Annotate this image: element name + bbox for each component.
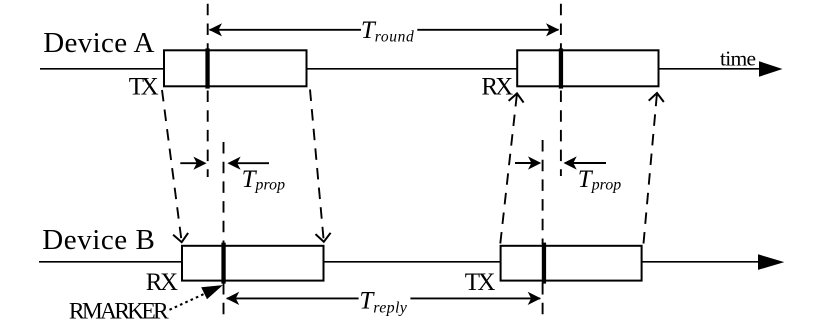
signal path S1 (A TX left edge to B RX left edge): [162, 90, 188, 242]
svg-text:TX: TX: [465, 269, 496, 296]
dashed vertical line V4 (A RX marker, lower): [560, 91, 562, 177]
marker bar in frame A1: [205, 48, 209, 88]
timeline B wire: [39, 261, 760, 263]
svg-text:RMARKER: RMARKER: [69, 299, 169, 325]
dashed vertical line V1 (A TX marker, lower): [207, 91, 209, 178]
frame A1 (TX frame of Device A): [164, 50, 307, 86]
frame A2 (RX frame of Device A): [517, 50, 658, 86]
dashed vertical line V3 (B TX marker, upper): [542, 140, 544, 244]
svg-text:RX: RX: [146, 269, 178, 296]
marker bar in frame A2: [559, 48, 563, 88]
T_prop arrows (left pair): [180, 157, 269, 170]
signal path S3 (B TX left edge to A RX left edge): [500, 93, 523, 243]
svg-text:TX: TX: [129, 74, 159, 101]
timeline A arrowhead: [759, 61, 783, 77]
dashed vertical line V4 (A RX marker, upper): [560, 4, 562, 50]
signal path S2 (A TX right edge to B RX right edge): [310, 90, 331, 242]
svg-text:time: time: [720, 47, 756, 71]
timeline A wire: [40, 68, 760, 70]
svg-text:Device B: Device B: [42, 224, 155, 256]
svg-text:RX: RX: [481, 74, 513, 101]
timeline B arrowhead: [758, 254, 784, 270]
signal path S4 (B TX right edge to A RX right edge): [644, 93, 664, 244]
dashed vertical line V3 (B TX marker, lower): [542, 283, 544, 316]
T_reply dimension arrow: [226, 292, 541, 305]
dashed vertical line V2 (B RX marker, upper): [223, 142, 225, 244]
T_prop arrows (right pair): [515, 156, 606, 169]
dashed vertical line V1 (A TX marker, upper): [207, 4, 209, 50]
marker bar in frame B2: [542, 243, 546, 284]
dashed vertical line V2 (B RX marker, lower): [223, 283, 225, 316]
marker bar in frame B1: [221, 243, 225, 284]
svg-text:Device A: Device A: [43, 27, 154, 59]
frame B2 (TX frame of Device B): [501, 246, 642, 281]
T_round dimension arrow: [209, 23, 559, 36]
frame B1 (RX frame of Device B): [182, 246, 324, 281]
RMARKER pointer dotted arrow: [170, 285, 223, 310]
